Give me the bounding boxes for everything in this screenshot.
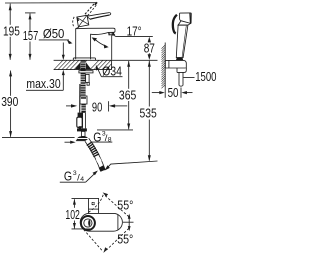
dimension 90 arrow bbox=[109, 104, 115, 107]
dimension 535 line bbox=[148, 61, 150, 107]
label max.30 arrows bbox=[62, 43, 64, 57]
side cartridge (check valve) bbox=[79, 84, 81, 113]
top view: spray face ring outer bbox=[81, 216, 95, 230]
wall hatching bbox=[162, 45, 166, 88]
hand shower head bbox=[180, 13, 192, 24]
label Ø50 leader arrow bbox=[67, 40, 72, 44]
lever raised dashed outline bbox=[73, 3, 97, 26]
dimension 90 tick bbox=[108, 101, 110, 111]
top view: wall holder bracket bbox=[89, 199, 99, 214]
hose end cap bbox=[101, 167, 103, 171]
raised lever dark tip bbox=[94, 2, 98, 6]
label 1500 leader bbox=[183, 77, 194, 79]
svg-text:195: 195 bbox=[3, 23, 20, 38]
hand shower trigger bbox=[173, 15, 177, 34]
dimension 157 arrows bbox=[29, 13, 32, 19]
svg-text:max.30: max.30 bbox=[26, 76, 60, 91]
top view: holder screw bbox=[92, 202, 95, 205]
svg-text:365: 365 bbox=[119, 87, 136, 102]
dimension 195 line bbox=[9, 4, 11, 25]
label G3/4 leader arrow bbox=[86, 173, 96, 183]
faucet base plinth bbox=[73, 58, 95, 60]
dimension 157 line bbox=[29, 13, 31, 31]
svg-text:Ø50: Ø50 bbox=[43, 26, 65, 41]
threaded shank below deck bbox=[81, 60, 86, 96]
G3/4 flexible hose outline bbox=[87, 140, 103, 171]
dimension 157 tick top bbox=[25, 12, 36, 14]
handle end bulb bbox=[176, 57, 183, 61]
dimension 50 ticks bbox=[164, 86, 166, 98]
deck hatching bbox=[54, 60, 115, 69]
G3/8 fitting bell bbox=[76, 136, 89, 140]
svg-text:102: 102 bbox=[65, 207, 80, 222]
svg-text:87: 87 bbox=[144, 41, 155, 56]
hand shower neck bbox=[178, 21, 191, 25]
dimension 87 arrows bbox=[148, 37, 151, 43]
hand shower head face edge bbox=[189, 13, 192, 23]
aerator lip bbox=[109, 32, 114, 35]
wall holder bracket bbox=[165, 60, 186, 68]
svg-text:1500: 1500 bbox=[195, 69, 216, 84]
label G3/4 underline bbox=[60, 181, 86, 183]
G3/4 threaded nut on hose bbox=[89, 143, 97, 156]
lever handle solid bbox=[87, 13, 111, 20]
dimension 390 line bbox=[10, 71, 12, 96]
deck hole right wedge bbox=[86, 62, 91, 69]
deck bottom line bbox=[54, 69, 112, 71]
lever knuckle / cartridge housing bbox=[77, 15, 89, 27]
top view: swivel lower arrow bbox=[103, 247, 107, 253]
dimension 102 line bbox=[73, 199, 75, 208]
390-level reference line bbox=[2, 136, 75, 138]
svg-text:50: 50 bbox=[168, 85, 179, 100]
svg-text:8: 8 bbox=[108, 136, 112, 143]
svg-text:G: G bbox=[64, 169, 72, 184]
shower hose bbox=[178, 72, 180, 85]
top view: swivel dashed line lower B bbox=[81, 226, 103, 251]
label max.30 underline bbox=[26, 89, 63, 91]
deck top line bbox=[54, 59, 158, 61]
spout bbox=[76, 28, 115, 34]
mounting washer bbox=[79, 71, 93, 73]
deck hole left wedge bbox=[75, 62, 80, 69]
dimension 195 arrows bbox=[9, 4, 12, 10]
label Ø50 leader underline bbox=[39, 39, 69, 41]
top view: capsule joint line bbox=[117, 215, 119, 230]
svg-text:55°: 55° bbox=[117, 231, 133, 246]
svg-text:G: G bbox=[93, 129, 101, 144]
dimension 102 ticks bbox=[72, 198, 89, 200]
wall surface line bbox=[164, 43, 166, 87]
label Ø34 underline bbox=[101, 76, 122, 78]
top view: swivel dashed line upper bbox=[104, 195, 129, 217]
label G3/8 leader arrow bbox=[88, 142, 93, 146]
valve body under deck bbox=[86, 74, 90, 82]
top view: spray handle capsule bbox=[80, 213, 122, 231]
lower flange bbox=[77, 128, 87, 131]
holder hose guide bbox=[177, 68, 186, 72]
svg-text:Ø34: Ø34 bbox=[102, 63, 122, 78]
top view: swivel dashed line lower A bbox=[107, 228, 129, 250]
svg-text:4: 4 bbox=[80, 176, 84, 183]
svg-text:90: 90 bbox=[92, 100, 102, 115]
dimension 365 line bbox=[128, 61, 130, 89]
G3/8 fitting stem bbox=[81, 131, 85, 136]
water flow arc arrow bbox=[94, 39, 106, 47]
dimension 90 left arrow bbox=[71, 104, 77, 107]
svg-text:157: 157 bbox=[23, 28, 39, 43]
svg-text:390: 390 bbox=[1, 94, 18, 109]
label G3/8 underline bbox=[91, 141, 113, 143]
top view: pivot double arrow bbox=[128, 215, 130, 230]
faucet body column bbox=[76, 27, 79, 59]
label 17° underline / dimension 87 top tick bbox=[115, 35, 153, 37]
535 bottom reference line with arrow to hose bbox=[107, 161, 158, 168]
G3/8 pointing arrow left bbox=[65, 141, 73, 143]
svg-text:17°: 17° bbox=[127, 24, 142, 39]
water flow vertical line bbox=[111, 35, 113, 60]
dimension 195 tick top bbox=[5, 2, 97, 4]
hose collar bbox=[98, 159, 100, 162]
svg-text:55°: 55° bbox=[117, 197, 133, 212]
365 bottom reference tick bbox=[97, 129, 133, 131]
hose to angle valve bbox=[82, 113, 84, 129]
dimension 50 right arrow bbox=[181, 91, 187, 94]
hose coupling bbox=[80, 96, 87, 104]
deck right face bbox=[111, 60, 113, 69]
label Ø34 leader bbox=[97, 67, 101, 76]
hand shower handle bbox=[176, 25, 188, 57]
svg-text:535: 535 bbox=[140, 106, 157, 121]
threaded hose below coupling bbox=[81, 104, 85, 113]
dimension 50 left arrow bbox=[152, 92, 162, 94]
top view: spray face ring inner bbox=[84, 219, 92, 227]
